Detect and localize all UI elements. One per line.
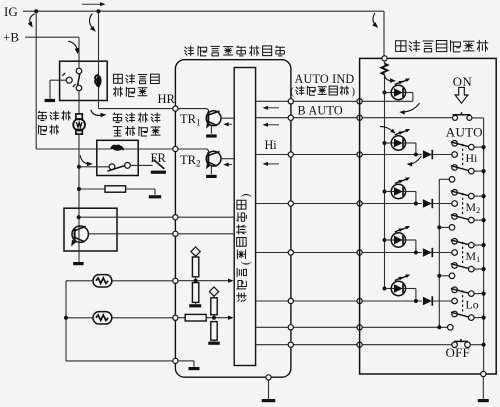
wire dropping resistor to ground (126, 189, 155, 195)
contact interlock 4 (448, 325, 454, 331)
wire panel ground (482, 377, 484, 399)
pin panel top supply (382, 56, 387, 61)
pin panel left M1 (357, 250, 362, 255)
label TR2 (180, 153, 200, 169)
label (自动指示灯) (290, 86, 355, 98)
wire IG branch down to fan relay coil (36, 11, 111, 149)
resistor P1 lower (192, 283, 198, 304)
blower motor M (73, 114, 85, 134)
LED indicator D5 (385, 275, 411, 296)
wire +B rail (25, 37, 79, 68)
wire sensor common bottom row (66, 360, 173, 362)
wire OFF row (256, 344, 452, 346)
ground TR2 (206, 175, 217, 178)
wire LED1 cathode to AUTO IND row (406, 93, 413, 102)
label AUTO (446, 125, 483, 140)
label AUTO IND (295, 72, 355, 86)
wire collector to amplifier (88, 233, 172, 235)
wire IG rail (23, 11, 384, 56)
arrow hollow ON push (455, 87, 468, 103)
node IG-branch junction (34, 9, 38, 13)
switch group M2 (451, 190, 486, 223)
resistor P2 upper (211, 295, 217, 318)
wire ON to ground bus (472, 118, 484, 371)
wire LED5 cathode drop (406, 289, 416, 302)
label 鼓风机风 (fan relay line1) (113, 112, 161, 122)
pin panel left M2 (357, 201, 362, 206)
wire room temp sensor row (66, 317, 173, 319)
wire OFF to ground bus (470, 343, 485, 347)
arrow curved at IG branch (28, 14, 35, 28)
label 继电器 (heater relay line2) (113, 87, 147, 97)
amplifier 自动空调器放大器 box (175, 60, 291, 378)
ground dropping resistor (149, 195, 161, 198)
arrow signal direction (263, 123, 279, 127)
wire TR1 collector to microcomputer (221, 117, 234, 119)
svg-text:OFF: OFF (446, 345, 470, 360)
svg-text:ON: ON (453, 75, 472, 89)
arrow callout above LED2 (380, 127, 396, 134)
label 暖风装置 (heater relay line1) (114, 74, 160, 84)
pin amplifier bottom ground (266, 375, 271, 380)
wire motor down trunk (78, 134, 80, 226)
pin amplifier right Hi (288, 152, 293, 157)
pin amplifier right B-AUTO (288, 115, 293, 120)
node P2 wiper (212, 316, 216, 320)
pin amplifier right AUTO-IND (288, 99, 293, 104)
label M2 (466, 200, 481, 215)
label IG (4, 4, 18, 19)
arrow curved at +B drop (68, 41, 79, 54)
label 自动空调器放大器 (amplifier title) (184, 45, 285, 55)
diode isolation at y301.0 (423, 296, 452, 305)
wire amplifier ground (268, 380, 270, 399)
node LED5 anode junction (383, 287, 387, 291)
ground sensor common (189, 367, 200, 370)
ground control panel (478, 399, 489, 402)
label 暖风装置控制板 (panel title) (396, 40, 489, 52)
fan relay contact left (109, 164, 115, 170)
pin panel left AUTO-IND (357, 99, 362, 104)
power transistor box (64, 208, 117, 251)
switch group Lo (451, 287, 486, 320)
node LED1 anode junction (383, 91, 387, 95)
label 微电脑(特高速运转) rotated (236, 193, 252, 302)
wire LED2 cathode drop (406, 143, 416, 155)
switch group M1 (451, 239, 486, 272)
contact interlock 3 (449, 273, 455, 279)
ground relay contact (45, 99, 56, 102)
node P1 wiper (194, 279, 198, 283)
label Lo (466, 298, 479, 312)
LED indicator D3 (385, 178, 411, 199)
relay contact left (NC) (62, 73, 75, 87)
thermistor room temp sensor (93, 312, 112, 324)
relay 鼓风机风扇继电器 box (97, 140, 138, 175)
microcomputer box (234, 68, 255, 366)
diode isolation at y154.5 (423, 150, 452, 159)
ground FR switch (151, 171, 166, 174)
pin amplifier left sensor-gnd (173, 358, 178, 363)
arrow signal direction (263, 162, 279, 166)
transistor TR1 (206, 111, 221, 134)
wire feedback row (256, 326, 448, 328)
wire collector row inside amplifier (178, 233, 234, 235)
wire sensor common left column (65, 281, 67, 361)
svg-text:IG: IG (4, 4, 18, 19)
wire Hi row (256, 154, 422, 156)
label Hi amplifier side (265, 138, 278, 152)
LED indicator D2 (385, 129, 411, 150)
arrow signal into TR2 (223, 163, 232, 167)
pot P1 terminal (191, 247, 200, 256)
label 电机 (blower line2) (38, 125, 58, 135)
pin panel bottom ground (481, 371, 486, 376)
label 鼓风机 (blower line1) (38, 111, 71, 121)
contact interlock 1 (449, 177, 455, 183)
fan relay contact right (125, 163, 131, 169)
node LED4 cathode junction (414, 251, 418, 255)
wire TR2 collector to microcomputer (221, 158, 234, 160)
diode isolation at y203.5 (423, 199, 452, 208)
ground amplifier (262, 399, 276, 402)
arrow curved at control panel feed (372, 13, 378, 28)
label ON (453, 75, 472, 89)
wire M1 row (256, 252, 422, 254)
svg-text:Hi: Hi (265, 138, 278, 152)
LED indicator D4 (385, 226, 411, 247)
svg-text:(: ( (290, 86, 294, 98)
wire sensor ground row (178, 361, 194, 367)
svg-text:): ) (240, 193, 252, 197)
arrow current direction on IG rail (82, 2, 106, 6)
label Hi (466, 151, 479, 165)
LED indicator D1 (385, 79, 411, 100)
relay contact fixed top (76, 68, 82, 74)
wire base feed to amplifier (79, 216, 173, 218)
pin amplifier right feedback (288, 325, 293, 330)
wire HR to TR1 base (178, 109, 209, 113)
label HR (158, 92, 176, 106)
arrow callout to fan relay text (91, 110, 107, 118)
pin panel left feedback (357, 325, 362, 330)
node IG-relay-coil junction (97, 9, 101, 13)
wire LED3 cathode drop (406, 192, 416, 204)
svg-text:Lo: Lo (466, 298, 479, 312)
wire sensor2 row to microcomputer (206, 316, 233, 320)
FR switch lever (154, 160, 165, 169)
ground TR1 (206, 134, 217, 137)
label TR1 (180, 112, 200, 128)
wire HR line to amplifier (99, 108, 173, 110)
node LED2 cathode junction (414, 153, 418, 157)
pin amplifier left sensor2 (173, 315, 178, 320)
node LED5 cathode junction (414, 299, 418, 303)
fan relay blade (107, 166, 124, 172)
label FR (151, 151, 167, 165)
arrow curved at relay coil feed (89, 14, 95, 32)
svg-text:AUTO: AUTO (446, 125, 483, 140)
pin amplifier left base (173, 215, 178, 220)
pin amplifier right M1 (288, 250, 293, 255)
wire M2 row (256, 203, 422, 205)
svg-text:): ) (351, 86, 355, 98)
pin panel left OFF (357, 342, 362, 347)
label M1 (466, 249, 481, 264)
transistor TR2 (206, 151, 221, 174)
svg-text:B AUTO: B AUTO (298, 104, 343, 118)
node interlock 3 junction (437, 274, 449, 278)
label B AUTO (298, 104, 343, 118)
node LED3 anode junction (383, 190, 387, 194)
node interlock 2 junction (437, 225, 449, 229)
svg-text:HR: HR (158, 92, 176, 106)
pin amplifier right Lo (288, 298, 293, 303)
resistor LED supply (382, 61, 388, 289)
relay switch blade (78, 74, 80, 86)
node LED3 cathode junction (414, 202, 418, 206)
node dropping resistor feed (77, 187, 81, 191)
arrow curved resistor to LED1 (384, 75, 396, 82)
arrow signal into TR1 (223, 122, 232, 126)
label 扇继电器 (fan relay line2) (113, 126, 161, 136)
wire relay left contact to ground (50, 80, 66, 99)
wire to fan relay switch (79, 166, 109, 168)
fan relay coil (111, 145, 172, 150)
pin amplifier right M2 (288, 201, 293, 206)
pin amplifier right OFF (288, 342, 293, 347)
arrow signal direction (263, 106, 279, 110)
wire LED4 cathode drop (406, 240, 416, 253)
wire sensor1 row inside amplifier (178, 279, 234, 283)
switch group Hi (451, 141, 486, 174)
node LED2 anode junction (383, 141, 387, 145)
relay contact fixed bottom (76, 85, 82, 91)
wire FR to TR2 base (178, 149, 209, 153)
pin panel left B-AUTO (357, 115, 362, 120)
svg-text:+B: +B (3, 30, 19, 45)
arrow curved to fan relay switch (80, 155, 93, 166)
svg-text:Hi: Hi (466, 151, 479, 165)
resistor P1 upper (192, 255, 198, 281)
pin panel left Lo (357, 298, 362, 303)
wire AUTO-IND row (256, 100, 413, 102)
resistor blower dropping (105, 186, 126, 192)
resistor sensor2 series (178, 314, 206, 321)
wire base row inside amplifier (178, 216, 234, 218)
wire interlock chain (439, 179, 449, 327)
label +B (3, 30, 19, 45)
node LED4 anode junction (383, 238, 387, 242)
relay 暖风装置继电器 box (60, 61, 108, 100)
pot P2 terminal (209, 287, 218, 296)
node base feed junction (77, 215, 81, 219)
pin amplifier left sensor1 (173, 278, 178, 283)
wire to dropping resistor (79, 188, 105, 190)
thermistor water temp sensor (93, 275, 112, 287)
diode isolation at y252.5 (423, 248, 452, 257)
pin amplifier left FR (173, 146, 178, 151)
ground P1 (189, 304, 201, 307)
pin panel left Hi (357, 152, 362, 157)
svg-text:FR: FR (151, 151, 167, 165)
svg-text:AUTO IND: AUTO IND (295, 72, 355, 86)
wire relay to motor (78, 91, 80, 114)
ground power transistor (73, 262, 84, 265)
label OFF (446, 345, 470, 360)
switch OFF pushbutton (452, 339, 471, 348)
pin amplifier left collector (173, 231, 178, 236)
node interlock 4 junction (437, 325, 441, 329)
wire Lo row (256, 300, 422, 302)
switch ON pushbutton (453, 112, 472, 120)
wire fan relay to FR ground switch (130, 164, 152, 166)
resistor P2 lower (211, 322, 217, 342)
control panel 暖风装置控制板 box (360, 58, 497, 374)
svg-text:(: ( (240, 261, 252, 265)
relay coil (95, 11, 101, 108)
node fan relay switch feed (77, 165, 81, 169)
contact interlock 2 (449, 225, 455, 231)
ground P2 (208, 342, 220, 345)
node sensor common junction (64, 316, 68, 320)
wire B-AUTO row (256, 117, 453, 119)
transistor power Q1 (71, 226, 88, 262)
arrow callout below LED1 (399, 103, 419, 115)
arrow callout below LED2 (407, 156, 422, 166)
pin amplifier left HR (173, 106, 178, 111)
wire water temp sensor row (66, 280, 173, 282)
